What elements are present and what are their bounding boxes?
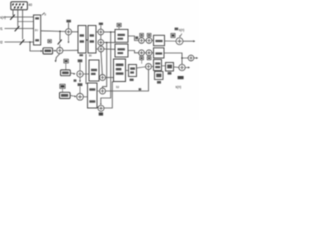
box F [89, 60, 99, 81]
stub c5 [141, 37, 143, 38]
tag 42b [64, 59, 69, 63]
LPM1 text [45, 50, 52, 53]
adder M2 [57, 47, 63, 53]
box F text1 [91, 69, 97, 71]
wire F to c9 [98, 77, 101, 79]
wire cA to cB [100, 35, 102, 39]
label above cA [99, 23, 103, 25]
tag 46 left of c7 [171, 33, 175, 37]
arrowhead LPM1-M2 [55, 50, 57, 52]
box K text1 [130, 67, 135, 69]
wire adder3 to box H [83, 96, 87, 98]
drop wire 1 [101, 52, 102, 75]
box L1b [155, 72, 164, 80]
box L1b text [156, 74, 161, 78]
wire c10 to c11 riser [106, 70, 149, 91]
window box A [34, 15, 41, 45]
wire cB right [104, 41, 115, 43]
svg-text:f1: f1 [0, 27, 3, 31]
final adder F2 [179, 64, 185, 70]
svg-text:(b): (b) [35, 28, 38, 32]
tiny label before c5 [135, 36, 138, 39]
arrow from label to c7 [180, 34, 182, 37]
box A mark 1 [35, 17, 39, 19]
output wire top [183, 40, 193, 42]
junction dot at bus row3 [29, 41, 31, 43]
wire I to c7 [165, 40, 176, 42]
box A mark 3 [35, 39, 39, 41]
branch wire down to switch4 [59, 32, 61, 41]
box E text2 [118, 52, 124, 54]
box K text2 [130, 71, 134, 73]
box G text3 [116, 72, 124, 74]
multiplier c6 [146, 38, 152, 44]
ROM glyphs row 2 [14, 7, 16, 9]
tiny label left of adder2 arrow [74, 79, 77, 81]
wire LPM3 to adder3 [70, 95, 75, 98]
adder2 down wire [79, 77, 81, 80]
adder c9 [100, 75, 106, 81]
junction dot at J tap [181, 57, 183, 59]
tag44 stub [62, 88, 64, 92]
tag 22 above box D [117, 23, 121, 26]
wire ROM to switch 3 [22, 10, 24, 39]
wire C to cC [96, 48, 98, 50]
output wire mid [194, 57, 197, 59]
junction dot at M1 branch [59, 31, 61, 33]
box H text2 [89, 100, 95, 102]
adder c11 [146, 64, 152, 70]
wire c11 to box L1 [152, 66, 154, 68]
output arrowhead top [193, 40, 195, 42]
multiplier M1 [65, 29, 71, 35]
wire c9 to box G [106, 77, 114, 79]
box B mark2 [80, 40, 84, 42]
wire D to c5 [128, 36, 139, 41]
box G text2 [116, 68, 122, 70]
box E [115, 44, 128, 57]
arrowhead into c11b [100, 103, 102, 105]
svg-text:s(n): s(n) [0, 16, 6, 20]
output adder c8b [188, 55, 194, 61]
tag below c6b [147, 57, 151, 60]
arrowhead into c7 [179, 36, 181, 38]
box J text [155, 52, 162, 54]
tag 42a [48, 40, 52, 43]
LPM3 text [61, 94, 68, 97]
wire E to c5b [128, 51, 139, 53]
wire C to cA [96, 31, 98, 33]
wire c6b to box J [152, 52, 154, 54]
multiplier c5 [139, 38, 145, 44]
control ROM box 40 [11, 2, 28, 10]
adder2 down arrowhead [79, 81, 81, 83]
wire cA to box D [104, 31, 115, 33]
svg-text:32: 32 [116, 85, 120, 89]
arrowhead LPM3-adder3 [75, 95, 77, 97]
transform box B [78, 26, 86, 54]
box H text1 [89, 88, 95, 90]
tag22 stub [118, 27, 120, 30]
adder c10 [100, 88, 106, 94]
output arrowhead mid [196, 57, 198, 59]
wire switch4 to M2 [59, 44, 61, 47]
wire LPM1 to M2 [53, 50, 55, 52]
svg-text:s(n): s(n) [179, 28, 185, 32]
tag 44 [60, 84, 65, 88]
box H [88, 83, 98, 108]
input wire row1 [5, 16, 34, 18]
svg-text:s(n): s(n) [176, 85, 182, 89]
adder cB [98, 40, 104, 46]
arrowhead into LPM1 [41, 50, 43, 52]
wire L2b to adder F2 [174, 66, 179, 68]
box C mark1 [90, 34, 94, 36]
label under output bottom [178, 76, 184, 79]
arrow B to C [86, 39, 88, 41]
input wire row3 [5, 41, 34, 43]
ROM glyphs row 1 [12, 4, 14, 6]
adder A2 [77, 71, 83, 77]
wire g1 to M1 [68, 23, 70, 29]
switch row1 [10, 15, 15, 20]
multiplier c5b [139, 50, 145, 56]
big box G [114, 59, 126, 82]
tiny label on c10 wire [139, 88, 142, 90]
LPM box 3 [60, 92, 71, 98]
arrowhead M2 down [55, 60, 57, 62]
switch row3 [20, 40, 25, 45]
tag above c5 [140, 33, 144, 36]
wire M1 to box B [72, 31, 78, 33]
wire box A to M1 [41, 30, 66, 33]
wire ROM to switch 1 [12, 10, 14, 16]
label g2 [78, 59, 83, 62]
box L2b text [167, 65, 172, 69]
label g3 [78, 83, 83, 86]
wire down to box H [86, 54, 88, 84]
box E text1 [118, 48, 125, 50]
wire K to c11 [137, 67, 146, 68]
junction dot drop2 [106, 42, 108, 44]
wire M2 to box B lower [63, 49, 78, 51]
box K [129, 65, 137, 77]
wire L1 to L2b [162, 65, 166, 67]
wire cA top [100, 25, 102, 29]
label under box B [79, 54, 83, 56]
LPM2 text [62, 72, 69, 75]
stub c6 [148, 37, 150, 38]
label g1 [66, 20, 71, 23]
wire ROM to switch 2 [17, 10, 19, 27]
LPM box 1 [43, 48, 53, 54]
box I text [155, 40, 162, 42]
box D text1 [118, 34, 125, 36]
theta tag of box A [42, 13, 45, 16]
wire M1 down [68, 35, 70, 42]
arrowhead LPM2-adder2 [74, 73, 76, 75]
box C mark2 [90, 40, 94, 42]
tag below c5b [140, 57, 144, 60]
tag42b stub [65, 63, 67, 70]
adder A3 [77, 93, 84, 100]
box B mark1 [80, 34, 84, 36]
svg-text:40: 40 [28, 3, 32, 7]
svg-text:f2: f2 [0, 41, 3, 45]
box L2b [166, 63, 174, 72]
adder c11b [98, 105, 104, 111]
wire adder2 to box F [83, 73, 89, 75]
box L1 [154, 60, 162, 71]
box I [154, 35, 165, 45]
box G text1 [116, 64, 124, 67]
output wire bottom [185, 67, 188, 69]
wire g2 to adder2 [79, 62, 81, 70]
box F text2 [91, 73, 96, 75]
wire g3 to adder3 [79, 86, 81, 93]
label under box L1b [157, 81, 161, 84]
junction dot drop3 [110, 31, 112, 33]
box D [115, 29, 128, 42]
wire c6 to box I [152, 40, 154, 42]
wire G to K [126, 69, 129, 71]
wire H to c11b [97, 106, 98, 107]
stub below tag c5b [141, 60, 143, 64]
jog wire row1b [18, 17, 34, 22]
svg-text:30: 30 [89, 53, 93, 57]
wire c11b riser to box G [104, 82, 114, 108]
LPM box 2 [61, 70, 71, 76]
tag below c11b [99, 112, 103, 115]
label under box K [130, 79, 134, 81]
arrowhead M1 down [68, 42, 70, 44]
drop wire 3 [101, 32, 111, 103]
tag above c6 [147, 33, 151, 36]
output label block top right [175, 28, 179, 31]
switch above M2 [58, 40, 62, 45]
input wire row2 [5, 28, 34, 30]
wire H to c10 [97, 90, 99, 92]
box L1 text1 [155, 62, 160, 64]
box D text2 [118, 38, 124, 40]
wire J to adder F2 [164, 53, 182, 64]
box L1 text2 [155, 66, 160, 68]
wire c5b to c6b [144, 52, 146, 54]
label under box L2b [168, 72, 172, 75]
drop wire 2 [103, 43, 107, 88]
bus wire to LPM1 [30, 42, 41, 51]
svg-text:0: 0 [44, 12, 46, 16]
adder cA [98, 29, 104, 35]
switch row2 [15, 26, 20, 31]
output arrowhead bottom [188, 67, 190, 69]
wire LPM2 to adder2 [71, 72, 75, 75]
transform box C [88, 26, 96, 54]
output adder c7 [176, 38, 183, 45]
wire M2 down [56, 54, 60, 61]
adder cC [98, 46, 104, 52]
box J [154, 48, 165, 58]
tap wire to c8b [182, 57, 188, 59]
wire c5 to c6 [144, 40, 146, 42]
multiplier c6b [146, 50, 152, 56]
wire cC to box E [104, 48, 115, 50]
